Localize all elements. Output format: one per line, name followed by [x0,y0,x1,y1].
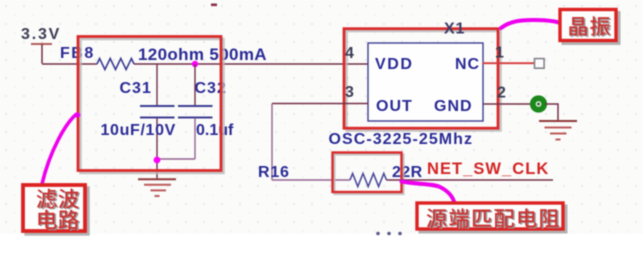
wire C32 to C31 junction [157,158,195,160]
junction [192,61,198,67]
svg-text:4: 4 [345,45,354,62]
callout label 源端匹配电阻 (source termination resistor) [417,203,566,232]
svg-text:22R: 22R [392,164,423,181]
wire FB8 to X1 pin 4 [134,63,368,65]
stray mark [211,4,217,7]
svg-text:3.3V: 3.3V [21,26,61,43]
test point / via on pin 2 [533,98,544,109]
ground (right) [539,121,577,140]
annotation arrow to crystal label [501,20,560,28]
svg-text:2: 2 [497,85,506,102]
wire pin 1 to no-connect [483,62,535,64]
svg-text:NC: NC [455,56,480,73]
svg-text:120ohm 500mA: 120ohm 500mA [138,45,267,64]
oscillator X1 [329,21,507,149]
svg-text:VDD: VDD [375,56,414,73]
callout label 滤波电路 (filter circuit) [23,185,88,234]
svg-text:X1: X1 [444,21,465,38]
highlight box: oscillator [344,29,501,131]
svg-text:10uF/10V: 10uF/10V [101,122,176,139]
svg-text:0.1uf: 0.1uf [196,122,234,139]
svg-text:GND: GND [434,98,473,115]
wire test point to ground [545,104,558,121]
highlight box: filter circuit [78,37,224,174]
callout label 晶振 (crystal) [560,10,619,44]
svg-text:C31: C31 [120,80,152,97]
svg-text:NET_SW_CLK: NET_SW_CLK [427,160,549,178]
capacitor C32 [178,64,234,159]
ground (filter) [138,179,176,196]
svg-text:OSC-3225-25Mhz: OSC-3225-25Mhz [329,131,474,148]
power port 3.3V [21,26,61,64]
ferrite bead FB8 [60,45,267,70]
svg-text:R16: R16 [258,164,290,181]
annotation dot on box edge [75,112,81,118]
junction [154,157,161,164]
no-connect on pin 1 [535,59,545,69]
wire pin 3 to R16 [272,104,368,181]
resistor R16 [258,164,423,187]
net label NET_SW_CLK [387,160,554,180]
ellipsis [376,232,402,236]
annotation arrow to filter label [42,115,76,185]
svg-text:OUT: OUT [376,98,413,115]
wire pin 2 to test point [483,103,532,105]
svg-text:3: 3 [345,84,354,101]
svg-text:1: 1 [495,45,504,62]
highlight box: matching resistor [333,153,404,195]
annotation arrow to matching label [402,182,456,206]
capacitor C31 [101,64,176,180]
wire power to FB8 [42,63,97,65]
